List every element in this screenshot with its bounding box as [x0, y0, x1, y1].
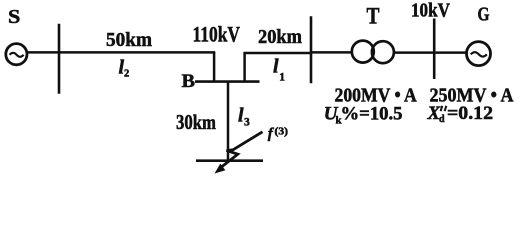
svg-text:110kV: 110kV: [193, 22, 241, 47]
svg-text:(3): (3): [275, 126, 288, 137]
svg-text:l: l: [273, 56, 279, 78]
svg-text:B: B: [182, 71, 196, 92]
svg-text:T: T: [367, 3, 380, 28]
svg-text:=0.12: =0.12: [447, 103, 493, 124]
svg-text:10kV: 10kV: [411, 0, 450, 21]
svg-text:G: G: [478, 3, 490, 25]
svg-text:d: d: [439, 114, 445, 125]
svg-text:3: 3: [244, 117, 250, 129]
svg-text:20km: 20km: [258, 26, 302, 48]
svg-text:%=10.5: %=10.5: [341, 104, 403, 125]
svg-text:1: 1: [279, 72, 285, 84]
svg-text:30km: 30km: [176, 110, 216, 134]
svg-text:2: 2: [124, 68, 129, 79]
svg-text:S: S: [8, 6, 20, 28]
svg-text:50km: 50km: [106, 29, 152, 51]
